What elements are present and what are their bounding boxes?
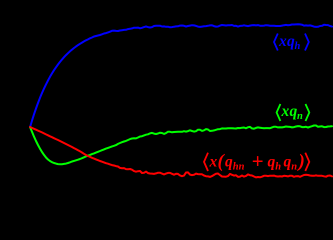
svg-text:x: x: [278, 33, 287, 50]
red label text x(q_hn + q_h q_n): [209, 149, 305, 173]
svg-text:h: h: [275, 161, 281, 172]
blue label angle bracket left: [274, 34, 278, 51]
svg-text:q: q: [268, 154, 276, 171]
green curve: average x*q_n dip then slow rise: [30, 126, 332, 165]
svg-text:x: x: [209, 154, 218, 171]
svg-text:h: h: [295, 41, 301, 52]
green label angle bracket left: [277, 104, 281, 121]
red label angle bracket left: [204, 153, 208, 171]
green label angle bracket right: [306, 104, 310, 121]
svg-text:+: +: [252, 149, 264, 173]
green label text xq_n: [281, 103, 304, 122]
svg-text:x: x: [281, 103, 290, 120]
svg-text:q: q: [225, 154, 233, 171]
blue curve: average x*q_h rising to plateau: [30, 24, 332, 127]
svg-text:): ): [297, 151, 305, 172]
blue label angle bracket right: [305, 34, 309, 51]
svg-text:n: n: [291, 161, 297, 172]
svg-text:n: n: [297, 111, 303, 122]
svg-text:hn: hn: [233, 161, 245, 172]
blue label text xq_h: [278, 33, 301, 52]
red curve: average x*(q_hn + q_h*q_n) decaying: [30, 127, 332, 177]
svg-text:q: q: [284, 154, 292, 171]
red label angle bracket right: [305, 153, 309, 171]
